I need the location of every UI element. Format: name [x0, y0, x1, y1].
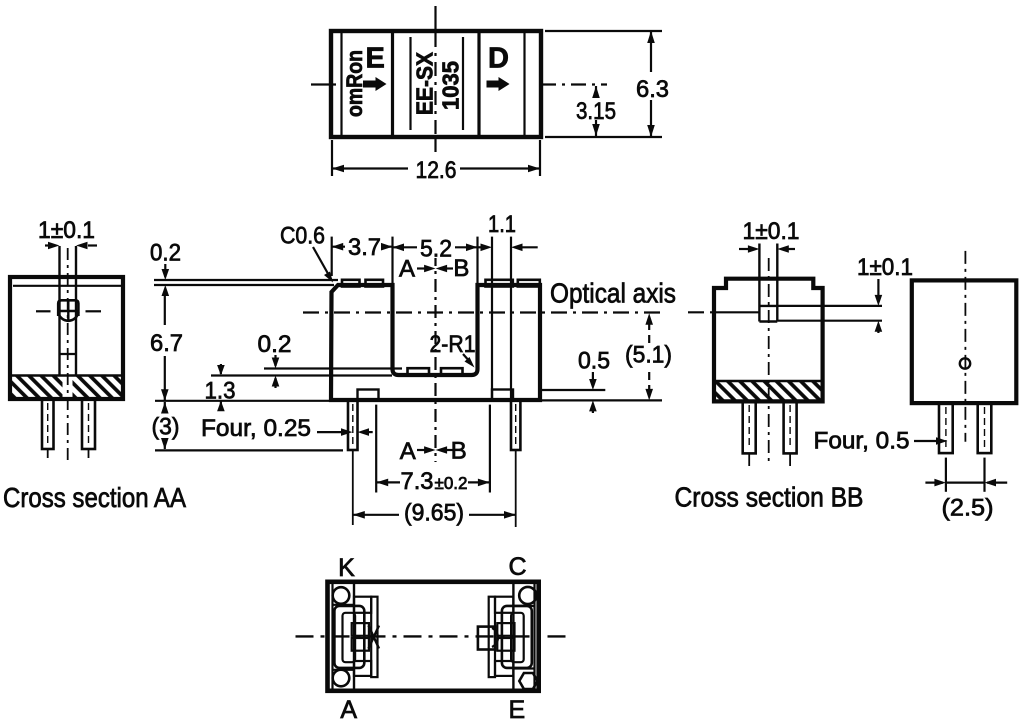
- AA element side dashes: [36, 310, 51, 312]
- dim C0.6 leader: [313, 247, 331, 279]
- svg-text:3.15: 3.15: [576, 98, 616, 125]
- right structure rail: [489, 597, 495, 677]
- dim 6.3 line: [650, 31, 652, 137]
- AA dim 1±0.1 arrows: [45, 244, 48, 246]
- dim (3) line: [164, 402, 166, 412]
- svg-text:C: C: [508, 553, 526, 581]
- svg-text:0.2: 0.2: [258, 331, 292, 358]
- BB optical axis stub: [688, 311, 714, 313]
- svg-text:1±0.1: 1±0.1: [743, 218, 800, 245]
- svg-text:A: A: [399, 256, 415, 283]
- svg-text:Cross section BB: Cross section BB: [675, 482, 864, 513]
- top view inner line 3: [409, 37, 411, 130]
- circle box lines left: [333, 604, 355, 606]
- top tabs left tower: [342, 280, 360, 287]
- dim 6.7 line: [164, 296, 166, 325]
- dim 2.5 ext lines: [945, 458, 947, 492]
- bottom step ext line right: [542, 389, 605, 391]
- BB dim 1±0.1 right arrows: [877, 279, 879, 295]
- cross section BB group: [675, 218, 948, 513]
- right structure inner rect: [511, 613, 524, 662]
- svg-text:E: E: [509, 696, 526, 724]
- svg-text:Four, 0.25: Four, 0.25: [201, 415, 311, 442]
- svg-text:6.3: 6.3: [636, 76, 669, 103]
- svg-text:1.3: 1.3: [205, 378, 236, 405]
- right structure outer round rect: [502, 606, 532, 668]
- svg-text:E: E: [366, 42, 385, 74]
- top tabs right tower: [486, 280, 513, 287]
- pin circle C: [519, 587, 536, 604]
- dim 0.2 top arrows: [164, 264, 166, 277]
- svg-text:7.3: 7.3: [401, 468, 434, 495]
- front body outline: [331, 285, 540, 400]
- svg-text:12.6: 12.6: [416, 157, 457, 184]
- front right leg: [511, 400, 520, 450]
- shoulder tab left: [358, 390, 379, 401]
- bottom plane line: [155, 400, 343, 402]
- leg tip plane line: [155, 449, 343, 451]
- dim 0.2 slot arrows: [274, 355, 276, 366]
- dim 5.2 line: [393, 246, 478, 248]
- bottom plane ext line right: [542, 399, 662, 401]
- AA element box: [58, 300, 78, 316]
- pin hex E: [519, 673, 537, 689]
- left structure small boxes: [352, 623, 369, 636]
- pin circle K: [333, 587, 350, 604]
- dim 7.3 line: [376, 481, 400, 483]
- top view inner line 5: [477, 33, 480, 135]
- BB center dash line: [768, 258, 770, 466]
- optical axis dash-dot: [303, 311, 662, 313]
- slot floor plane ext line: [211, 374, 392, 376]
- top view vertical centerline: [434, 6, 436, 33]
- circle box lines right: [513, 605, 534, 607]
- svg-text:EE-SX: EE-SX: [412, 51, 438, 115]
- svg-text:A: A: [340, 696, 357, 724]
- top surface plane lines: [154, 279, 338, 281]
- top view inner line 1: [340, 33, 342, 135]
- dim 2-R1 leader: [463, 354, 471, 363]
- dim Four 0.25 arrows: [317, 431, 342, 433]
- BB left leg: [743, 401, 756, 453]
- left structure inner rect: [343, 613, 356, 662]
- right structure small boxes: [497, 623, 514, 636]
- Four, 0.5 leader: [914, 440, 936, 442]
- bottom inner left edge line: [331, 583, 333, 690]
- front left leg: [348, 400, 358, 450]
- shoulder tab right: [492, 390, 513, 401]
- dim 1.3: [220, 364, 222, 374]
- svg-text:3.7: 3.7: [348, 234, 381, 261]
- left structure X mark: [369, 626, 380, 649]
- bottom view group: [296, 553, 573, 724]
- marking E arrow: [363, 77, 387, 91]
- dim 12.6 line: [332, 167, 540, 169]
- AA right leg: [82, 399, 95, 449]
- dim 6.3 extension lines: [545, 30, 662, 32]
- svg-text:6.7: 6.7: [150, 330, 183, 357]
- svg-text:(3): (3): [152, 414, 180, 441]
- right structure tab: [478, 627, 495, 650]
- dim 3.15 line: [595, 86, 597, 136]
- bottom left column line: [353, 583, 355, 690]
- svg-text:B: B: [453, 255, 469, 282]
- svg-text:1±0.1: 1±0.1: [38, 217, 95, 244]
- front view group: [150, 211, 676, 527]
- top view inner line 4: [462, 37, 464, 130]
- bottom right column line: [512, 583, 514, 690]
- svg-text:5.2: 5.2: [420, 236, 452, 263]
- svg-text:(9.65): (9.65): [404, 500, 464, 527]
- bottom view centerline: [296, 635, 573, 637]
- left structure outer round rect: [334, 606, 364, 668]
- BB body outline with lip: [714, 279, 823, 402]
- side view group: [912, 251, 1017, 522]
- dim (5.1) line: [648, 322, 650, 343]
- left structure bottom box: [354, 661, 371, 676]
- slot floor tabs: [408, 368, 430, 376]
- svg-text:0.5: 0.5: [578, 348, 610, 375]
- BB slot lines: [758, 244, 760, 322]
- side body outline: [912, 280, 1017, 403]
- marking D arrow: [487, 77, 510, 91]
- AA left leg: [42, 399, 54, 449]
- cross section AA group: [3, 217, 186, 513]
- left structure top box: [354, 597, 371, 613]
- dim 3.7 ext line: [331, 237, 333, 276]
- svg-text:1035: 1035: [438, 61, 464, 110]
- svg-text:0.2: 0.2: [150, 240, 181, 267]
- dim 2.5 line: [925, 482, 943, 484]
- svg-text:1±0.1: 1±0.1: [857, 254, 913, 281]
- side center circle: [960, 358, 970, 368]
- right structure tab arc: [492, 628, 498, 647]
- AA slot lines: [58, 246, 60, 375]
- dim 0.5 arrows: [592, 372, 594, 381]
- svg-text:1.1: 1.1: [488, 211, 516, 238]
- BB dim 1±0.1 top arrows: [739, 248, 748, 250]
- dim 1.1 arrows: [481, 244, 493, 252]
- top view inner line 2: [391, 33, 394, 135]
- element lines in right tower: [491, 237, 493, 398]
- right structure top box: [495, 597, 513, 613]
- top view body outline: [331, 31, 541, 137]
- side center dash line: [964, 251, 966, 442]
- pin circle A: [333, 670, 350, 687]
- AA body outline: [10, 277, 123, 399]
- dim 7.3 ext lines: [375, 405, 377, 493]
- slot floor tab plane ext line: [264, 367, 402, 369]
- BB element ext lines right: [777, 305, 882, 307]
- svg-text:D: D: [488, 43, 509, 75]
- svg-text:Four, 0.5: Four, 0.5: [814, 428, 910, 455]
- side right leg: [978, 403, 992, 453]
- svg-text:Optical axis: Optical axis: [550, 278, 676, 309]
- svg-text:(2.5): (2.5): [942, 495, 994, 522]
- dim 3.7 line: [332, 246, 393, 248]
- bottom body outline: [328, 582, 539, 691]
- BB right leg: [784, 401, 797, 453]
- dim 9.65 line: [353, 514, 399, 516]
- svg-text:Cross section AA: Cross section AA: [3, 482, 186, 513]
- front vertical centerline: [434, 253, 436, 462]
- AA slot tick: [60, 353, 77, 355]
- svg-text:A: A: [400, 438, 416, 465]
- top view inner line 6: [523, 33, 525, 135]
- right structure bottom box: [495, 661, 513, 676]
- top view group: [311, 6, 671, 184]
- slot wall ext lines: [391, 237, 393, 283]
- bottom inner right edge line: [533, 583, 535, 690]
- svg-text:(5.1): (5.1): [625, 342, 672, 369]
- AA hatch band: [12, 376, 63, 398]
- side left leg: [939, 403, 953, 453]
- svg-text:C0.6: C0.6: [280, 223, 325, 250]
- BB hatch band: [716, 381, 821, 400]
- svg-text:2-R1: 2-R1: [430, 331, 476, 358]
- svg-text:B: B: [451, 438, 467, 465]
- AA center dashed line: [67, 248, 69, 462]
- BB element box lines: [759, 305, 777, 307]
- horizontal axis left stub: [311, 83, 336, 85]
- svg-text:K: K: [338, 554, 355, 582]
- horizontal axis right dash-dot: [541, 83, 607, 85]
- svg-text:±0.2: ±0.2: [435, 473, 468, 493]
- dim 12.6 extension lines: [331, 140, 333, 176]
- left structure rail: [371, 597, 377, 677]
